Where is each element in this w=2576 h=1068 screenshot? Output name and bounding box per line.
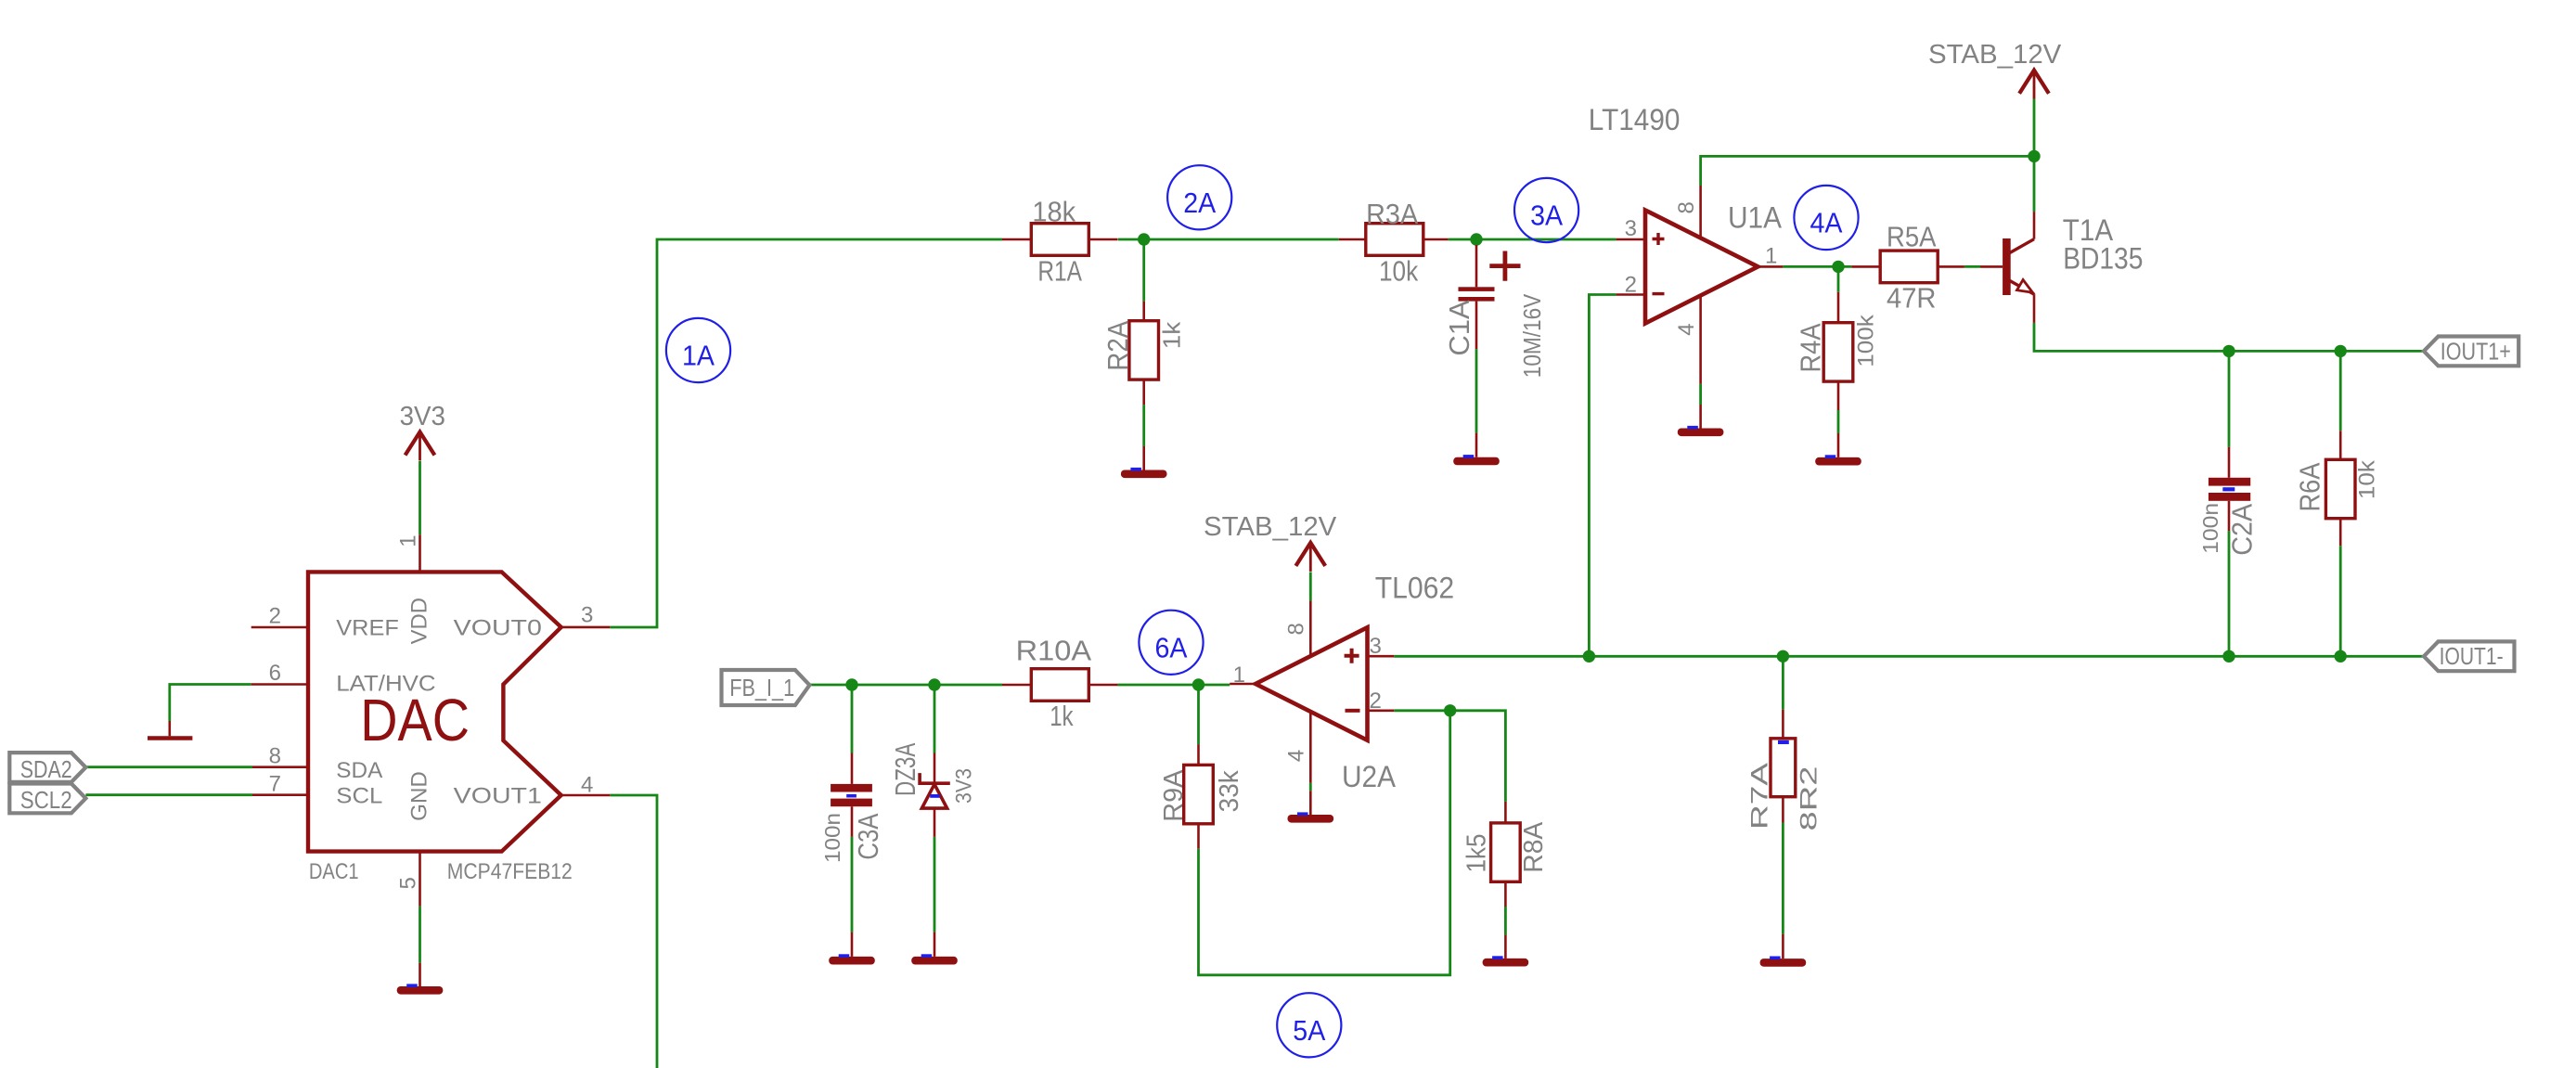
svg-text:SDA: SDA <box>336 758 382 783</box>
svg-text:STAB_12V: STAB_12V <box>1928 40 2062 70</box>
svg-text:100n: 100n <box>2198 503 2222 554</box>
svg-text:33k: 33k <box>1215 770 1244 812</box>
svg-text:C2A: C2A <box>2226 504 2259 556</box>
svg-text:10k: 10k <box>2354 459 2379 499</box>
svg-text:BD135: BD135 <box>2063 242 2143 276</box>
svg-text:2: 2 <box>269 604 281 629</box>
svg-text:FB_I_1: FB_I_1 <box>729 674 794 701</box>
svg-text:LT1490: LT1490 <box>1589 103 1681 136</box>
svg-text:10k: 10k <box>1379 255 1419 288</box>
svg-text:3V3: 3V3 <box>400 402 445 431</box>
svg-text:1k5: 1k5 <box>1462 834 1492 873</box>
svg-text:1: 1 <box>1233 663 1245 688</box>
svg-text:R2A: R2A <box>1101 321 1134 371</box>
svg-text:VOUT1: VOUT1 <box>454 784 542 809</box>
svg-text:1: 1 <box>1765 243 1777 268</box>
svg-text:8: 8 <box>1283 623 1308 635</box>
svg-text:IOUT1+: IOUT1+ <box>2441 338 2511 366</box>
svg-text:3: 3 <box>1370 634 1382 659</box>
svg-text:18k: 18k <box>1032 196 1075 228</box>
svg-text:1k: 1k <box>1158 321 1186 350</box>
svg-text:R8A: R8A <box>1519 821 1549 873</box>
svg-text:R3A: R3A <box>1366 198 1418 230</box>
svg-text:SDA2: SDA2 <box>20 755 72 783</box>
svg-text:SCL2: SCL2 <box>20 786 72 814</box>
svg-text:R5A: R5A <box>1887 221 1937 253</box>
svg-text:4: 4 <box>1674 323 1699 335</box>
svg-text:U1A: U1A <box>1728 201 1783 235</box>
svg-text:R10A: R10A <box>1016 635 1092 667</box>
svg-text:6: 6 <box>269 661 281 686</box>
svg-text:VDD: VDD <box>406 598 431 644</box>
svg-text:7: 7 <box>269 771 281 796</box>
svg-text:DAC: DAC <box>360 687 470 753</box>
svg-text:DZ3A: DZ3A <box>889 742 921 796</box>
svg-text:VOUT0: VOUT0 <box>454 616 542 641</box>
svg-text:U2A: U2A <box>1342 760 1397 793</box>
svg-text:2: 2 <box>1625 272 1637 297</box>
svg-text:1k: 1k <box>1050 700 1074 732</box>
svg-text:R1A: R1A <box>1037 255 1082 288</box>
svg-text:5: 5 <box>396 877 421 889</box>
svg-text:3: 3 <box>1625 216 1637 241</box>
svg-text:R9A: R9A <box>1159 769 1189 822</box>
svg-text:R4A: R4A <box>1794 323 1826 372</box>
svg-text:2A: 2A <box>1183 187 1216 219</box>
svg-text:DAC1: DAC1 <box>309 859 359 884</box>
svg-text:1: 1 <box>396 534 421 547</box>
svg-text:10M/16V: 10M/16V <box>1518 293 1546 378</box>
svg-text:8R2: 8R2 <box>1796 766 1822 831</box>
svg-text:100n: 100n <box>820 813 844 863</box>
svg-text:5A: 5A <box>1293 1014 1325 1047</box>
svg-text:3: 3 <box>581 603 593 628</box>
svg-text:C1A: C1A <box>1443 300 1475 356</box>
svg-text:SCL: SCL <box>336 784 382 809</box>
svg-text:R7A: R7A <box>1747 763 1773 830</box>
svg-text:47R: 47R <box>1887 281 1937 314</box>
svg-text:6A: 6A <box>1155 631 1188 663</box>
svg-text:STAB_12V: STAB_12V <box>1204 512 1337 542</box>
svg-text:C3A: C3A <box>852 813 884 859</box>
svg-text:VREF: VREF <box>336 616 399 641</box>
svg-text:3A: 3A <box>1530 199 1563 232</box>
svg-text:1A: 1A <box>682 340 715 372</box>
svg-text:2: 2 <box>1370 688 1382 714</box>
svg-text:100k: 100k <box>1854 314 1879 367</box>
svg-text:8: 8 <box>1674 201 1699 213</box>
svg-text:R6A: R6A <box>2293 462 2325 511</box>
svg-text:3V3: 3V3 <box>951 768 976 804</box>
svg-text:IOUT1-: IOUT1- <box>2440 642 2504 670</box>
svg-text:MCP47FEB12: MCP47FEB12 <box>447 859 573 884</box>
svg-text:TL062: TL062 <box>1375 572 1455 605</box>
svg-text:GND: GND <box>406 771 431 821</box>
svg-text:4: 4 <box>1283 750 1308 762</box>
svg-text:4A: 4A <box>1810 207 1843 239</box>
svg-text:4: 4 <box>581 772 593 797</box>
svg-text:8: 8 <box>269 743 281 768</box>
